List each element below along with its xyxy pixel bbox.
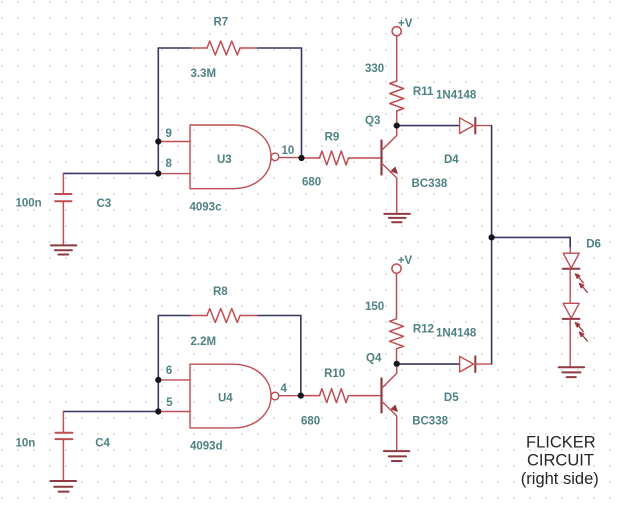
svg-text:8: 8 — [166, 158, 173, 170]
wire: C3 to U3 inputs — [63, 172, 158, 174]
node U4 pin5 junction — [155, 408, 161, 414]
svg-text:D5: D5 — [444, 392, 459, 404]
resistor R11 — [390, 36, 404, 126]
wire: R8 loop left vertical — [157, 316, 159, 412]
node U4 output junction — [298, 393, 304, 399]
wire: R7 top left segment — [158, 47, 191, 49]
svg-text:BC338: BC338 — [412, 178, 448, 190]
node Q3 collector junction — [394, 123, 400, 129]
wire: R8 top left segment — [158, 315, 191, 317]
svg-text:R12: R12 — [413, 324, 434, 336]
resistor R10 — [301, 389, 382, 403]
svg-text:6: 6 — [166, 365, 172, 377]
svg-text:R7: R7 — [214, 17, 229, 29]
node LED branch junction — [489, 234, 495, 240]
svg-text:10n: 10n — [16, 437, 36, 449]
svg-text:(right side): (right side) — [521, 470, 599, 488]
transistor Q4 — [382, 364, 398, 451]
svg-text:9: 9 — [166, 128, 172, 140]
ground (below D6) — [559, 367, 584, 377]
resistor R9 — [302, 151, 382, 165]
wire: C4 to U4 inputs — [63, 411, 158, 413]
svg-text:3.3M: 3.3M — [191, 68, 217, 80]
resistor R7 — [191, 41, 257, 55]
led D6 (two LEDs in series) — [563, 248, 580, 368]
svg-text:1N4148: 1N4148 — [436, 90, 477, 102]
node U3 output junction — [298, 155, 304, 161]
svg-text:+V: +V — [398, 18, 413, 30]
node U3 pin8 junction — [155, 170, 161, 176]
node Q4 collector junction — [394, 361, 400, 367]
svg-text:R9: R9 — [325, 131, 340, 143]
svg-text:C4: C4 — [95, 437, 110, 449]
nand gate U4 — [158, 364, 300, 428]
ground (below Q3) — [384, 214, 410, 222]
diode D5 — [460, 356, 492, 372]
svg-text:FLICKER: FLICKER — [526, 433, 596, 451]
resistor R12 — [390, 273, 404, 364]
svg-text:U3: U3 — [217, 154, 232, 166]
svg-text:10: 10 — [282, 145, 295, 157]
capacitor C3 — [55, 173, 71, 245]
svg-text:100n: 100n — [16, 198, 42, 210]
svg-text:R8: R8 — [213, 286, 228, 298]
svg-text:2.2M: 2.2M — [191, 336, 217, 348]
wire: R7 top right segment — [257, 47, 302, 49]
svg-text:Q4: Q4 — [366, 353, 382, 365]
node U4 pin6 junction — [155, 377, 161, 383]
wire: junction to LED chain — [492, 237, 571, 247]
svg-text:Q3: Q3 — [365, 115, 380, 127]
wire: R8 loop right vertical down to U4 output — [300, 316, 302, 396]
svg-text:150: 150 — [365, 301, 384, 313]
svg-text:680: 680 — [302, 177, 321, 189]
wire: R8 top right segment — [257, 315, 301, 317]
led D6 arrows (upper LED) — [575, 274, 587, 293]
svg-text:4093d: 4093d — [190, 440, 223, 452]
ground (below C3) — [51, 245, 76, 254]
svg-text:+V: +V — [398, 255, 413, 267]
+V supply (lower) — [392, 264, 401, 273]
node U3 pin9 junction — [155, 138, 161, 144]
svg-text:1N4148: 1N4148 — [436, 328, 477, 340]
svg-text:CIRCUIT: CIRCUIT — [527, 451, 594, 469]
ground (below Q4) — [384, 451, 409, 461]
svg-text:D4: D4 — [444, 154, 459, 166]
svg-text:BC338: BC338 — [412, 415, 448, 427]
wire: Q4 collector to D5 — [397, 363, 460, 365]
capacitor C4 — [55, 412, 72, 482]
svg-text:330: 330 — [365, 63, 384, 75]
svg-text:C3: C3 — [97, 198, 112, 210]
svg-text:R10: R10 — [324, 368, 345, 380]
ground (below C4) — [51, 481, 76, 492]
+V supply (upper) — [392, 27, 401, 36]
svg-text:4093c: 4093c — [190, 202, 223, 214]
diode D4 — [460, 118, 492, 134]
wire: R7 loop right vertical down to U3 output — [301, 48, 303, 158]
nand gate U3 — [158, 125, 301, 189]
led D6 arrows (lower LED) — [575, 323, 587, 342]
svg-text:5: 5 — [166, 397, 173, 409]
svg-text:R11: R11 — [413, 86, 434, 98]
svg-text:D6: D6 — [586, 239, 601, 251]
svg-text:680: 680 — [301, 415, 320, 427]
wire: R7 loop left vertical — [157, 48, 159, 174]
svg-text:4: 4 — [281, 383, 288, 395]
wire: Q3 collector to D4 — [397, 125, 460, 127]
wire: D4/D5 common vertical — [491, 126, 493, 365]
svg-text:U4: U4 — [218, 392, 233, 404]
transistor Q3 — [382, 126, 398, 214]
resistor R8 — [191, 309, 257, 323]
